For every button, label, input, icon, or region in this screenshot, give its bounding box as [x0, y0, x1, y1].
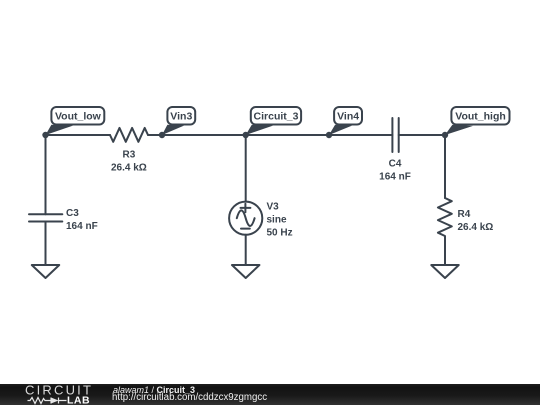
svg-text:50 Hz: 50 Hz — [267, 228, 293, 239]
svg-text:Vin4: Vin4 — [337, 111, 359, 123]
svg-text:C4: C4 — [389, 159, 402, 170]
svg-text:Vout_low: Vout_low — [55, 111, 102, 123]
svg-text:Vin3: Vin3 — [170, 111, 192, 123]
svg-text:26.4 kΩ: 26.4 kΩ — [111, 163, 147, 174]
svg-text:26.4 kΩ: 26.4 kΩ — [458, 222, 494, 233]
svg-text:R4: R4 — [458, 209, 471, 220]
svg-text:164 nF: 164 nF — [379, 172, 411, 183]
svg-text:V3: V3 — [267, 202, 280, 213]
svg-text:R3: R3 — [123, 150, 136, 161]
svg-text:Circuit_3: Circuit_3 — [254, 111, 299, 123]
svg-text:Vout_high: Vout_high — [455, 111, 506, 123]
svg-text:164 nF: 164 nF — [66, 221, 98, 232]
svg-text:C3: C3 — [66, 208, 79, 219]
svg-text:sine: sine — [267, 215, 287, 226]
